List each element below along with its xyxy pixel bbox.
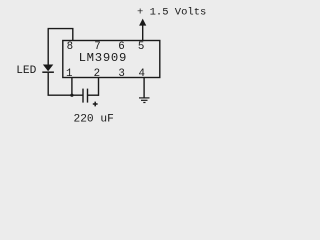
capacitor C1 right plate [87,89,89,103]
svg-text:3: 3 [118,68,124,80]
wire LED anode vertical [47,29,49,65]
junction dot node [70,94,73,97]
wire pin1 vertical [71,78,73,96]
wire pin5 to supply vertical [142,25,144,41]
ground symbol bar 3 [143,102,145,104]
svg-text:220 uF: 220 uF [74,114,114,126]
op-amp U1 LM3909 IC body [63,41,160,78]
wire pin8 vertical [72,29,74,41]
svg-text:8: 8 [67,41,73,53]
wire pin4 to ground vertical [143,78,145,98]
svg-text:+ 1.5 Volts: + 1.5 Volts [137,6,206,18]
supply arrow head [139,19,146,26]
ground symbol bar 2 [141,99,148,101]
svg-text:5: 5 [138,41,144,53]
wire capacitor to pin2 horizontal [88,94,99,96]
capacitor polarity plus sign [93,102,98,107]
wire pin2 vertical [98,78,100,96]
wire bottom horizontal to capacitor [48,94,83,96]
svg-text:LED: LED [16,65,36,77]
ground symbol bar 1 [139,97,150,99]
wire LED cathode vertical [47,73,49,95]
LED D1 cathode bar [42,71,54,73]
LED D1 triangle [43,65,53,72]
wire top horizontal [48,28,74,30]
svg-text:LM3909: LM3909 [79,51,127,65]
capacitor C1 left plate [82,89,84,103]
